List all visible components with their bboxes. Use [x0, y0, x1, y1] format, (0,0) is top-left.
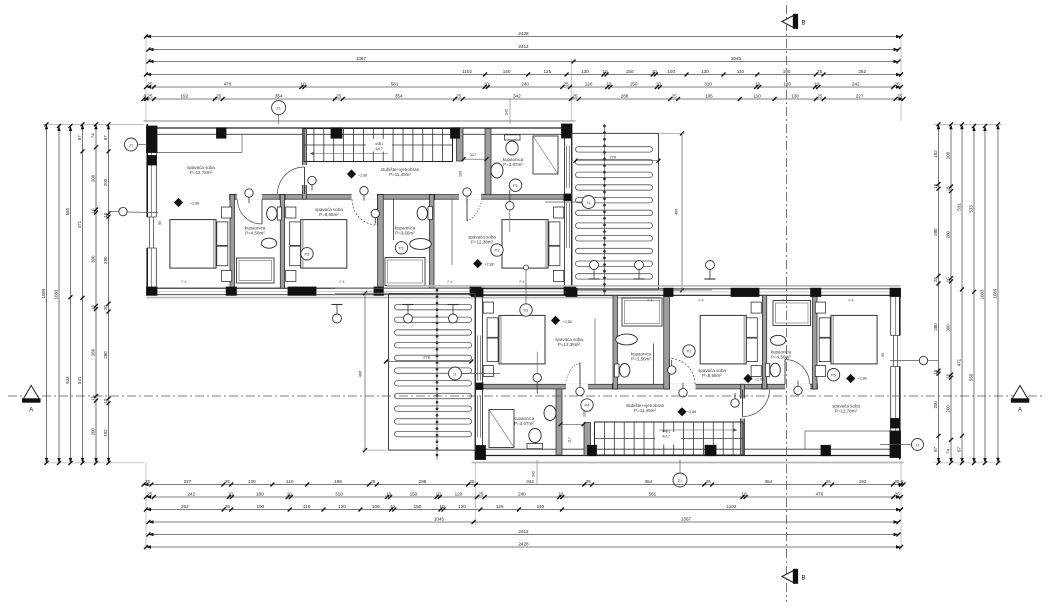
svg-text:P=11,49m²: P=11,49m²: [389, 172, 411, 177]
extension lines right columns: [934, 124, 1002, 463]
svg-text:F-4: F-4: [848, 299, 853, 303]
top dimension row 1 (2428): [144, 31, 903, 39]
top dimension row 6: [142, 93, 906, 101]
svg-text:120: 120: [458, 504, 466, 509]
section line B-B vertical: [786, 5, 788, 602]
svg-text:227: 227: [856, 93, 864, 98]
bubble I1 upper terrace: [545, 196, 595, 209]
svg-text:+2,88: +2,88: [485, 263, 494, 267]
level diamonds lower unit: [551, 316, 855, 417]
svg-text:1089: 1089: [993, 288, 998, 298]
bottom dimension row 6 (2428): [144, 541, 903, 549]
svg-text:25: 25: [147, 491, 153, 496]
svg-text:476: 476: [224, 81, 232, 86]
svg-text:10: 10: [558, 491, 564, 496]
left dimension column 4: [77, 122, 85, 465]
section line A-A horizontal: [8, 395, 1042, 397]
svg-text:+2,88: +2,88: [858, 377, 867, 381]
upper unit geometry: [144, 121, 716, 298]
right dimension column 5 (1083): [980, 124, 988, 465]
svg-text:342: 342: [532, 471, 536, 477]
bottom dimension row 4 (1045+1367): [147, 516, 901, 524]
svg-text:25: 25: [147, 81, 153, 86]
svg-text:150: 150: [630, 81, 638, 86]
svg-text:1102: 1102: [727, 504, 737, 509]
svg-text:200: 200: [103, 178, 108, 186]
svg-text:25: 25: [225, 504, 231, 509]
svg-text:110: 110: [303, 504, 311, 509]
vent symbol left outside: [109, 207, 159, 215]
svg-text:280: 280: [91, 348, 96, 356]
svg-text:Z1: Z1: [678, 478, 683, 483]
svg-text:44B1: 44B1: [662, 430, 670, 434]
svg-text:10: 10: [91, 208, 96, 213]
svg-text:10: 10: [300, 81, 306, 86]
svg-text:2428: 2428: [518, 31, 529, 36]
svg-text:74: 74: [946, 448, 951, 453]
svg-text:531: 531: [957, 203, 962, 211]
svg-text:P=11,49m²: P=11,49m²: [634, 408, 656, 413]
svg-text:150: 150: [414, 504, 422, 509]
svg-text:10: 10: [946, 277, 951, 282]
right dimension column 2: [946, 122, 954, 465]
svg-text:10: 10: [436, 491, 442, 496]
svg-text:120: 120: [455, 491, 463, 496]
svg-text:10: 10: [652, 69, 658, 74]
svg-text:190: 190: [783, 69, 791, 74]
svg-text:P2: P2: [687, 349, 693, 354]
right dimension column 3: [957, 122, 965, 465]
svg-text:125: 125: [543, 69, 551, 74]
svg-text:15: 15: [91, 395, 96, 400]
svg-text:496: 496: [358, 370, 363, 377]
svg-text:25: 25: [564, 81, 570, 86]
svg-text:1045: 1045: [434, 516, 445, 521]
svg-text:P=12,78m²: P=12,78m²: [835, 409, 858, 414]
svg-text:2412: 2412: [518, 529, 529, 534]
svg-text:10: 10: [814, 81, 820, 86]
svg-text:354: 354: [395, 93, 403, 98]
terrace upper: 270 dim line: [574, 159, 661, 163]
top dimension row 3 (1367+1045): [147, 56, 901, 64]
svg-text:533: 533: [65, 376, 70, 384]
svg-text:25: 25: [225, 479, 231, 484]
svg-text:B: B: [801, 576, 805, 582]
svg-text:280: 280: [103, 256, 108, 264]
svg-text:25: 25: [894, 479, 900, 484]
svg-text:1083: 1083: [54, 289, 59, 299]
svg-text:2412: 2412: [518, 44, 529, 49]
svg-text:280: 280: [946, 230, 951, 238]
bottom dimension row 2: [144, 491, 903, 499]
svg-text:140: 140: [503, 69, 511, 74]
svg-text:120: 120: [338, 504, 346, 509]
svg-text:Z1: Z1: [276, 106, 281, 111]
top dimension row 4: [144, 69, 903, 77]
svg-text:25: 25: [933, 277, 938, 282]
left dimension column 3 (550+533): [65, 124, 73, 465]
grid bubble Z1 top: [272, 101, 286, 124]
right dimension column 4 (533+550): [969, 124, 977, 465]
svg-text:300: 300: [91, 255, 96, 263]
svg-text:+2,88: +2,88: [563, 320, 572, 324]
svg-text:25: 25: [672, 93, 678, 98]
svg-text:10: 10: [439, 504, 445, 509]
svg-text:270: 270: [609, 154, 616, 159]
svg-text:242: 242: [852, 81, 860, 86]
svg-text:280: 280: [933, 323, 938, 331]
svg-text:15: 15: [946, 186, 951, 191]
svg-text:25: 25: [469, 479, 475, 484]
svg-text:120: 120: [581, 69, 589, 74]
svg-text:533: 533: [969, 205, 974, 213]
svg-text:496: 496: [674, 208, 679, 215]
svg-text:288: 288: [621, 93, 629, 98]
lower unit geometry (180deg rotated copy): [332, 286, 904, 463]
svg-text:10: 10: [390, 504, 396, 509]
svg-text:1367: 1367: [356, 56, 367, 61]
svg-text:25: 25: [897, 93, 903, 98]
svg-text:P=8,95m²: P=8,95m²: [319, 212, 339, 217]
svg-text:25: 25: [895, 491, 901, 496]
svg-text:25: 25: [817, 93, 823, 98]
svg-text:342: 342: [505, 109, 509, 115]
svg-text:25: 25: [103, 305, 108, 310]
terrace lower: drainage chain line: [436, 288, 438, 460]
svg-text:1089: 1089: [41, 288, 46, 298]
svg-text:F-4: F-4: [647, 299, 652, 303]
svg-text:10: 10: [741, 491, 747, 496]
svg-text:100: 100: [459, 171, 463, 177]
svg-text:10: 10: [287, 491, 293, 496]
svg-text:117: 117: [568, 437, 572, 443]
svg-text:87: 87: [933, 446, 938, 451]
svg-text:4x17: 4x17: [662, 435, 670, 439]
svg-text:550: 550: [65, 207, 70, 215]
svg-text:310: 310: [704, 81, 712, 86]
svg-text:180: 180: [783, 81, 791, 86]
svg-text:10: 10: [602, 69, 608, 74]
svg-text:25: 25: [572, 93, 578, 98]
svg-text:F-4: F-4: [447, 280, 452, 284]
svg-text:200: 200: [933, 401, 938, 409]
svg-text:252: 252: [181, 504, 189, 509]
svg-text:195: 195: [334, 479, 342, 484]
svg-text:531: 531: [77, 376, 82, 384]
stub dim 342 top: [505, 99, 511, 124]
svg-text:F-4: F-4: [519, 280, 524, 284]
extension lines bottom chains: [146, 463, 901, 551]
grid bubble left J: [125, 138, 147, 151]
svg-text:354: 354: [764, 479, 772, 484]
svg-text:476: 476: [816, 491, 824, 496]
left dimension column 1 (1089): [41, 122, 49, 465]
svg-text:150: 150: [410, 491, 418, 496]
svg-text:P=8,95m²: P=8,95m²: [702, 373, 722, 378]
svg-text:110: 110: [754, 93, 762, 98]
svg-text:1045: 1045: [731, 56, 742, 61]
section marker A left: [22, 386, 41, 414]
bottom dimension row 5 (2412): [147, 529, 901, 537]
svg-text:342: 342: [526, 479, 534, 484]
svg-text:190: 190: [257, 504, 265, 509]
svg-text:P1: P1: [513, 183, 519, 188]
svg-text:242: 242: [187, 491, 195, 496]
svg-text:+2,88: +2,88: [190, 202, 199, 206]
svg-text:342: 342: [513, 93, 521, 98]
svg-text:P=3,97m²: P=3,97m²: [503, 162, 523, 167]
room labels upper unit: [158, 142, 679, 284]
terrace upper: drainage chain line: [603, 124, 605, 296]
svg-text:280: 280: [933, 228, 938, 236]
section marker B top: [782, 14, 806, 29]
svg-text:581: 581: [649, 491, 657, 496]
extension lines top chains: [146, 34, 901, 122]
svg-text:550: 550: [969, 373, 974, 381]
svg-text:100: 100: [583, 411, 587, 417]
svg-text:+2,88: +2,88: [687, 410, 696, 414]
terrace lower: 278 dim line: [384, 360, 473, 364]
svg-text:125: 125: [496, 504, 504, 509]
svg-text:2428: 2428: [518, 541, 529, 546]
left dimension column 5: [91, 122, 99, 465]
svg-text:200: 200: [946, 151, 951, 159]
svg-text:200: 200: [91, 428, 96, 436]
vent symbol right outside: [890, 356, 939, 364]
svg-text:310: 310: [335, 491, 343, 496]
svg-text:8: 8: [901, 479, 904, 484]
svg-text:P=3,97m²: P=3,97m²: [514, 421, 534, 426]
svg-text:25: 25: [456, 93, 462, 98]
grid bubble right J: [880, 439, 924, 451]
svg-text:A: A: [1018, 408, 1022, 414]
svg-text:P=12,78m²: P=12,78m²: [190, 170, 213, 175]
svg-text:15: 15: [103, 398, 108, 403]
svg-text:90: 90: [158, 221, 162, 225]
svg-text:A: A: [29, 408, 33, 414]
svg-text:252: 252: [858, 69, 866, 74]
svg-text:471: 471: [957, 358, 962, 366]
svg-text:288: 288: [419, 479, 427, 484]
section marker A right: [1011, 386, 1030, 414]
svg-text:1367: 1367: [681, 516, 692, 521]
svg-text:4x17: 4x17: [375, 147, 383, 151]
level diamonds upper unit: [174, 169, 482, 268]
svg-text:471: 471: [77, 220, 82, 228]
svg-text:100: 100: [372, 504, 380, 509]
right dimension column 6 (1089): [993, 122, 1001, 465]
stub dim bottom: [532, 460, 538, 485]
svg-text:240: 240: [521, 81, 529, 86]
room labels lower unit: [358, 299, 886, 444]
left dimension column 2 (1083): [54, 124, 62, 465]
svg-text:25: 25: [370, 479, 376, 484]
svg-text:25: 25: [336, 93, 342, 98]
svg-text:10: 10: [755, 81, 761, 86]
svg-text:192: 192: [933, 150, 938, 158]
svg-text:F-4: F-4: [782, 299, 787, 303]
svg-text:25: 25: [895, 81, 901, 86]
svg-text:90: 90: [881, 353, 885, 357]
svg-text:25: 25: [216, 93, 222, 98]
svg-text:+2,88: +2,88: [358, 174, 367, 178]
svg-text:280: 280: [103, 351, 108, 359]
bottom dimension row 1: [142, 479, 906, 487]
svg-text:F-4: F-4: [181, 280, 186, 284]
svg-text:227: 227: [184, 479, 192, 484]
room tag circles: [301, 179, 840, 411]
svg-text:25: 25: [147, 93, 153, 98]
svg-text:10: 10: [656, 81, 662, 86]
svg-text:10: 10: [228, 491, 234, 496]
svg-text:120: 120: [701, 69, 709, 74]
svg-text:F-4: F-4: [698, 299, 703, 303]
svg-text:25: 25: [586, 479, 592, 484]
svg-text:130: 130: [791, 93, 799, 98]
svg-text:P=12,38m²: P=12,38m²: [558, 342, 581, 347]
svg-text:195: 195: [705, 93, 713, 98]
left dimension column 6: [103, 122, 111, 465]
svg-text:P4: P4: [585, 403, 591, 408]
top dimension row 5: [144, 81, 903, 89]
svg-text:10: 10: [103, 212, 108, 217]
svg-text:87: 87: [957, 446, 962, 451]
bottom dimension row 3: [144, 504, 903, 512]
svg-text:1102: 1102: [462, 69, 472, 74]
svg-text:200: 200: [946, 405, 951, 413]
svg-text:P2: P2: [305, 252, 311, 257]
svg-text:200: 200: [91, 174, 96, 182]
svg-text:P=4,56m²: P=4,56m²: [245, 231, 265, 236]
svg-text:192: 192: [180, 93, 188, 98]
svg-text:P3: P3: [495, 248, 501, 253]
svg-text:1083: 1083: [980, 289, 985, 299]
svg-text:100: 100: [667, 69, 675, 74]
svg-text:10: 10: [91, 304, 96, 309]
svg-text:25: 25: [478, 491, 484, 496]
svg-text:K1: K1: [524, 308, 530, 313]
svg-text:87: 87: [103, 135, 108, 140]
svg-text:P1: P1: [399, 246, 405, 251]
svg-text:581: 581: [391, 81, 399, 86]
svg-text:354: 354: [644, 479, 652, 484]
svg-text:240: 240: [518, 491, 526, 496]
svg-text:87: 87: [77, 135, 82, 140]
grid bubble bottom: [673, 460, 687, 488]
right dimension column 1: [933, 122, 941, 465]
svg-text:180: 180: [256, 491, 264, 496]
svg-text:278: 278: [423, 355, 430, 360]
svg-text:25: 25: [817, 69, 823, 74]
svg-text:192: 192: [859, 479, 867, 484]
svg-text:74: 74: [91, 133, 96, 138]
svg-text:P=3,56m²: P=3,56m²: [395, 231, 415, 236]
svg-text:354: 354: [275, 93, 283, 98]
extension lines left columns: [42, 124, 144, 463]
svg-text:10: 10: [946, 373, 951, 378]
svg-text:150: 150: [626, 69, 634, 74]
svg-text:8: 8: [144, 93, 147, 98]
svg-text:140: 140: [537, 504, 545, 509]
section marker B bottom: [782, 569, 806, 584]
svg-text:110: 110: [286, 479, 294, 484]
svg-text:P=12,38m²: P=12,38m²: [471, 240, 494, 245]
svg-text:+2,88: +2,88: [755, 378, 764, 382]
svg-text:44B1: 44B1: [375, 142, 383, 146]
svg-text:10: 10: [386, 491, 392, 496]
svg-text:130: 130: [248, 479, 256, 484]
svg-text:110: 110: [737, 69, 745, 74]
svg-text:117: 117: [470, 153, 476, 157]
svg-text:B: B: [801, 21, 805, 27]
svg-text:10: 10: [606, 81, 612, 86]
svg-text:P=4,56m²: P=4,56m²: [771, 355, 791, 360]
svg-text:120: 120: [585, 81, 593, 86]
svg-text:10: 10: [484, 81, 490, 86]
bubble I1 lower terrace: [449, 367, 501, 380]
svg-text:15: 15: [933, 183, 938, 188]
top dimension row 2 (2412): [147, 44, 901, 52]
svg-text:25: 25: [826, 479, 832, 484]
svg-text:10: 10: [933, 369, 938, 374]
svg-text:192: 192: [103, 429, 108, 437]
svg-text:F-4: F-4: [339, 280, 344, 284]
svg-text:P=3,56m²: P=3,56m²: [631, 357, 651, 362]
svg-text:300: 300: [946, 324, 951, 332]
svg-text:25: 25: [145, 479, 151, 484]
svg-text:P5: P5: [831, 372, 837, 377]
svg-text:25: 25: [706, 479, 712, 484]
